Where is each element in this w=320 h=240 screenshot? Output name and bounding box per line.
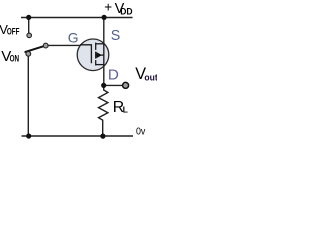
svg-text:+: + xyxy=(104,0,112,14)
svg-text:DD: DD xyxy=(120,6,133,16)
svg-text:out: out xyxy=(144,72,157,83)
svg-text:ON: ON xyxy=(10,54,20,64)
svg-text:L: L xyxy=(123,104,128,114)
svg-text:G: G xyxy=(68,31,79,46)
svg-text:S: S xyxy=(111,28,121,44)
svg-text:OFF: OFF xyxy=(7,26,20,36)
svg-text:D: D xyxy=(108,66,119,83)
svg-text:0v: 0v xyxy=(136,126,146,138)
